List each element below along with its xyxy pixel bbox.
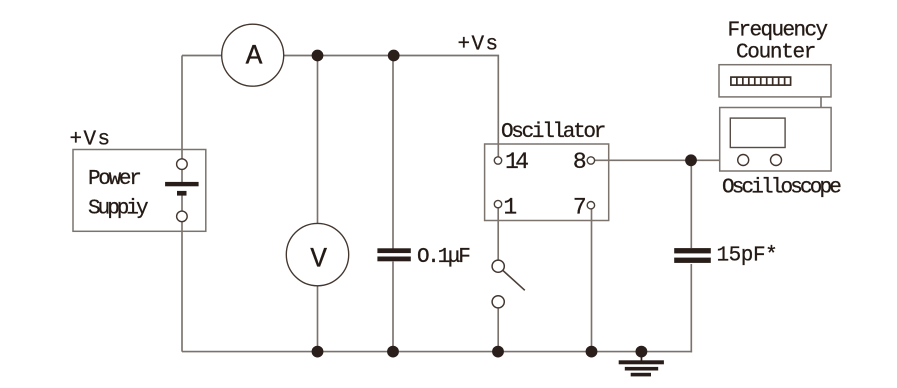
frequency counter box <box>719 65 831 97</box>
power supply box <box>73 150 206 232</box>
ammeter A <box>222 24 284 86</box>
wire capacitor C1 branch upper <box>392 56 394 249</box>
node +Vs at top rail <box>458 34 500 57</box>
svg-text:15pF*: 15pF* <box>717 245 778 268</box>
wire oscillator pin 7 to bottom rail <box>591 206 593 352</box>
junction on top rail at voltmeter branch <box>312 50 324 62</box>
junction bottom rail at switch <box>492 346 504 358</box>
wire oscillator pin 8 to oscilloscope <box>591 159 720 161</box>
wire frequency counter to oscilloscope <box>820 97 822 108</box>
svg-text:7: 7 <box>573 195 585 221</box>
wire bottom ground rail <box>182 351 692 353</box>
svg-text:Oscilloscope: Oscilloscope <box>722 177 841 200</box>
wire oscillator pin 1 to switch <box>497 206 499 266</box>
svg-text:Suppiy: Suppiy <box>88 198 148 221</box>
junction bottom rail at voltmeter <box>312 346 324 358</box>
oscilloscope knob left <box>738 155 749 166</box>
wire switch to bottom rail <box>497 302 499 352</box>
switch S1 top contact <box>492 260 504 272</box>
pin 14 <box>494 149 528 175</box>
switch S1 bottom contact <box>492 296 504 308</box>
wire capacitor C2 branch upper <box>690 160 692 248</box>
junction bottom rail at pin 7 <box>586 346 598 358</box>
svg-text:Frequency: Frequency <box>728 20 828 43</box>
frequency counter display segments <box>731 77 791 85</box>
battery negative plate <box>177 191 187 196</box>
svg-text:O.1μF: O.1μF <box>417 246 470 269</box>
pin 7 <box>573 195 595 221</box>
ground <box>619 355 664 376</box>
junction on top rail at capacitor C1 branch <box>388 50 400 62</box>
wire capacitor C1 branch lower <box>392 262 394 352</box>
label Power Suppiy <box>88 168 148 221</box>
junction bottom rail at capacitor C1 <box>387 346 399 358</box>
junction bottom rail at ground <box>636 346 648 358</box>
svg-text:Oscillator: Oscillator <box>501 121 605 144</box>
svg-text:A: A <box>246 41 263 72</box>
pin 8 <box>573 149 595 175</box>
svg-text:Counter: Counter <box>736 42 815 65</box>
node +Vs at power supply <box>70 128 112 151</box>
oscillator U1 box <box>485 144 609 221</box>
pin 1 <box>494 195 516 221</box>
label Oscilloscope <box>722 177 841 200</box>
oscilloscope knob right <box>771 155 782 166</box>
svg-text:14: 14 <box>505 149 528 175</box>
oscilloscope box <box>720 108 831 172</box>
wire left vertical from top rail through power supply to bottom rail <box>181 56 183 352</box>
wire capacitor C2 branch lower <box>690 264 692 352</box>
capacitor C2 plates <box>674 248 711 263</box>
svg-text:+Vs: +Vs <box>70 128 112 151</box>
power supply bottom terminal <box>177 211 188 222</box>
label Frequency Counter <box>728 20 828 65</box>
svg-text:+Vs: +Vs <box>458 34 500 57</box>
oscilloscope screen <box>730 118 785 147</box>
power supply top terminal <box>177 159 188 170</box>
value label 0.1uF <box>417 246 470 269</box>
wire top rail from power supply to oscillator pin 14 <box>182 56 498 158</box>
svg-text:V: V <box>310 245 327 276</box>
label Oscillator <box>501 121 605 144</box>
battery positive plate <box>165 182 199 186</box>
junction at oscilloscope input and C2 <box>685 154 697 166</box>
svg-text:Power: Power <box>88 168 140 191</box>
switch S1 blade <box>503 270 525 290</box>
voltmeter V <box>286 223 348 285</box>
wire voltmeter branch <box>317 56 319 352</box>
capacitor C1 plates <box>377 248 410 261</box>
value label 15pF* <box>717 245 778 268</box>
